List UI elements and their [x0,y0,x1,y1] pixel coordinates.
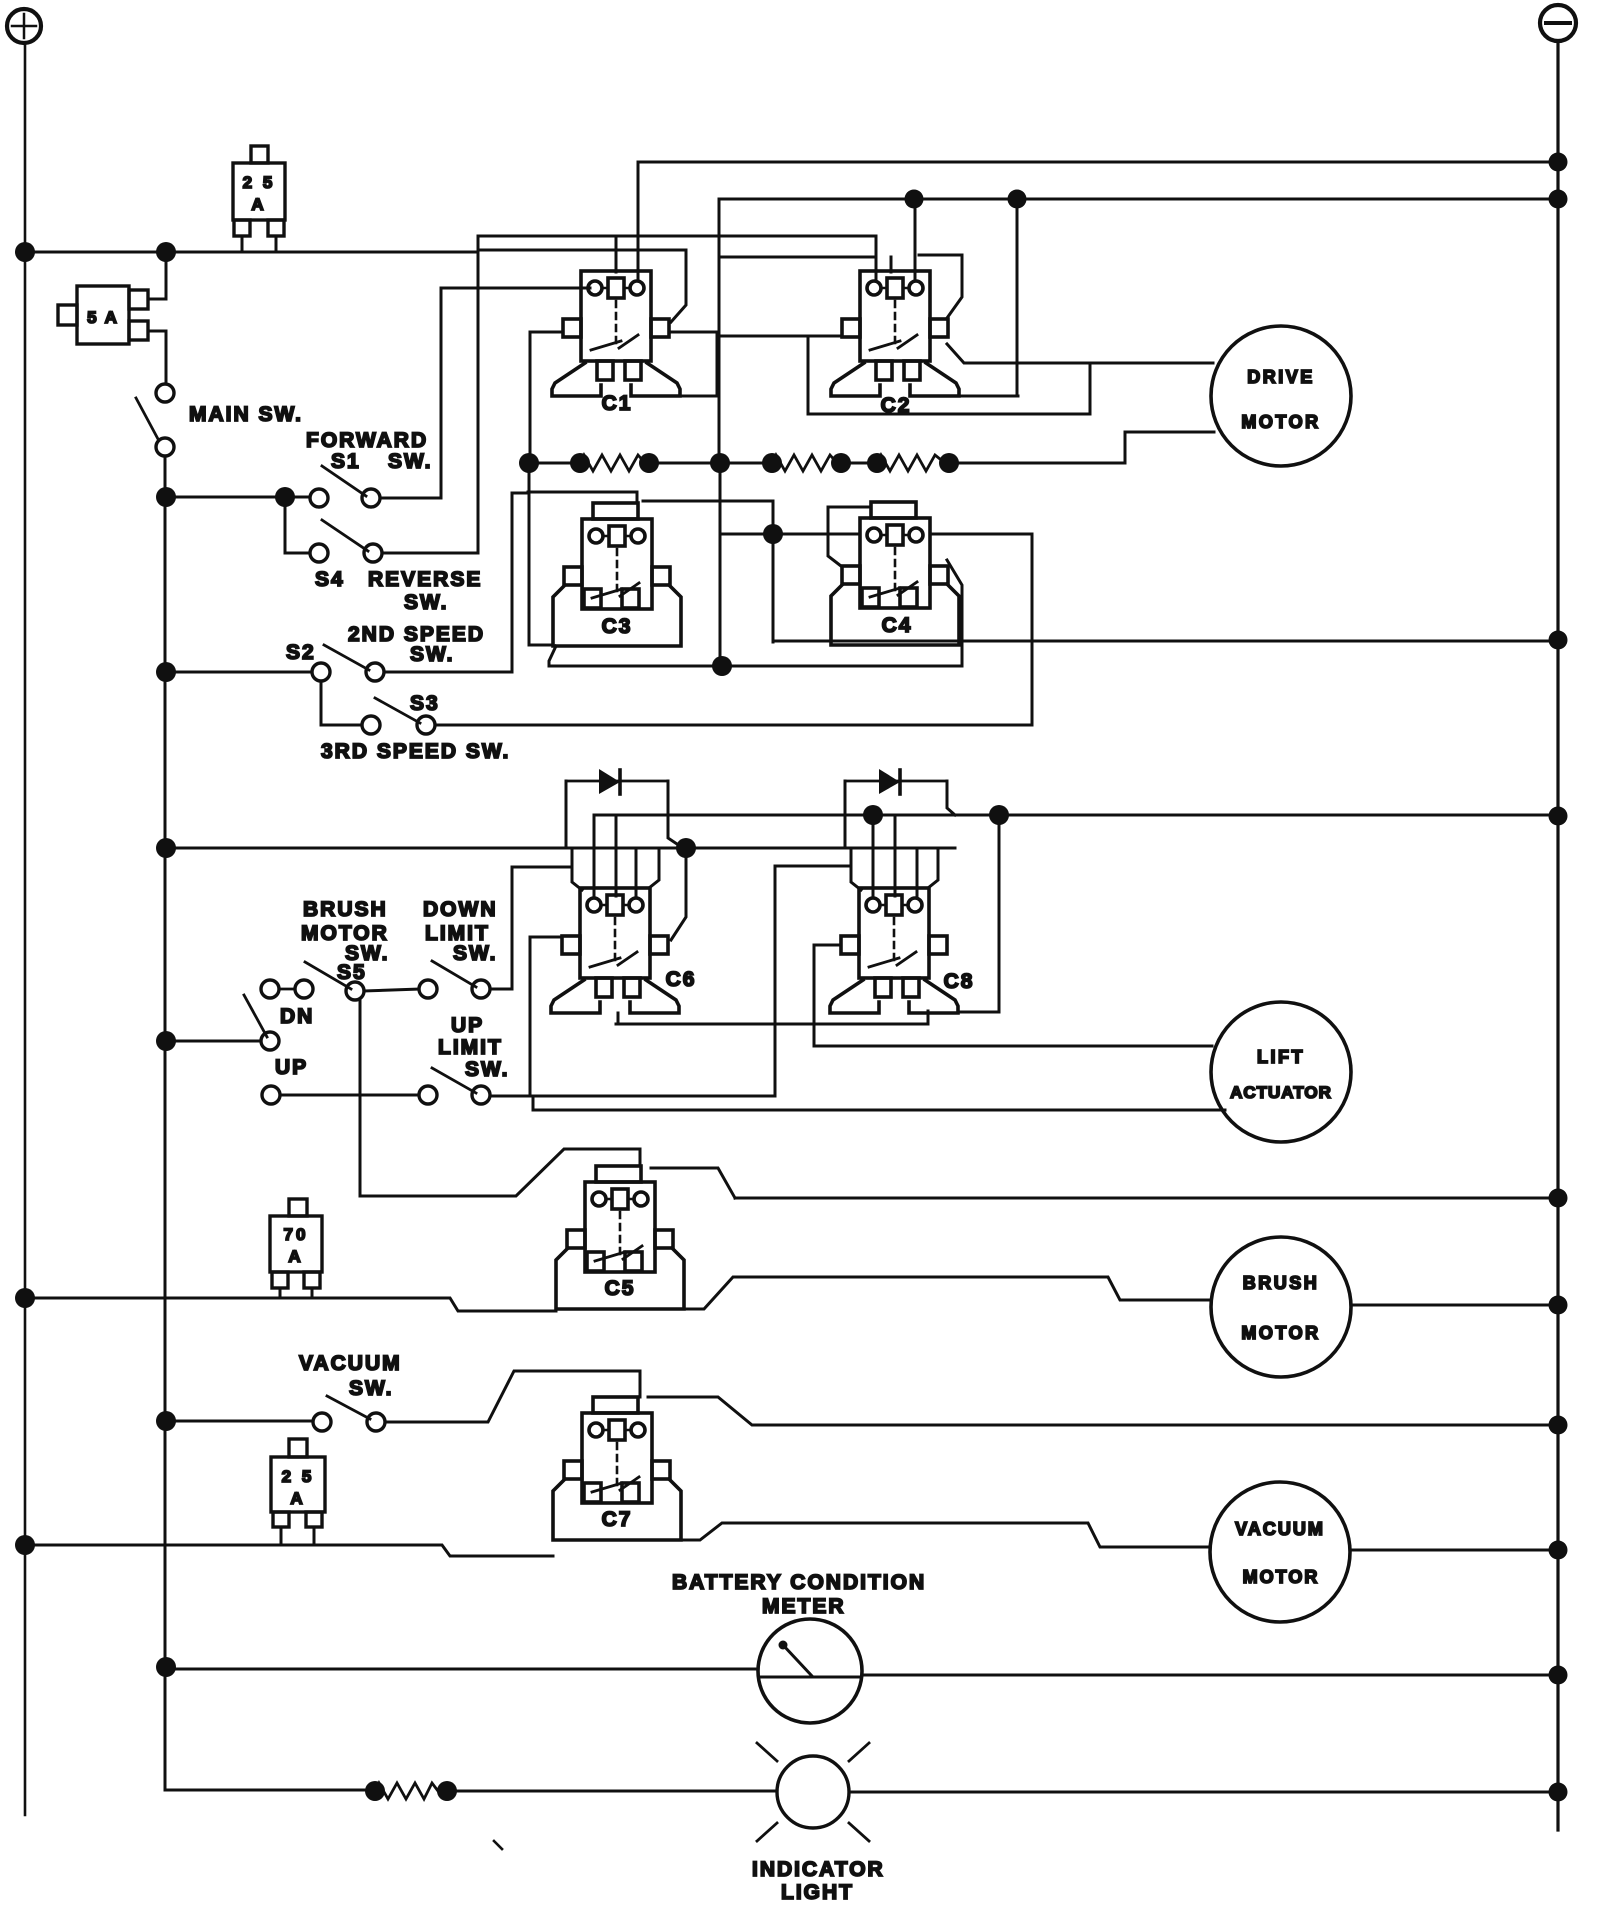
wire: C4 left hood [828,507,871,566]
wire: C8 left terminal drop [814,945,841,1024]
switch S2 2ND SPEED [312,645,384,681]
svg-text:METER: METER [762,1595,846,1618]
svg-text:INDICATOR: INDICATOR [752,1858,885,1881]
node: S1/S4 tap [275,487,295,507]
wire: lift actuator bottom feed [533,1096,1225,1110]
svg-text:REVERSE: REVERSE [368,568,482,591]
label: 25 A (bottom fuse) [282,1467,315,1508]
wire: resistor tap to C4 coil [720,463,860,666]
svg-text:DN: DN [280,1005,314,1028]
svg-text:LIMIT: LIMIT [438,1036,503,1059]
wire: bus A drop to C1 pin [637,162,640,280]
wire: brush motor line right [684,1277,1211,1309]
wire: indicator line right [849,1791,1558,1794]
wire: C4 right terminal drop [947,560,962,666]
wire: C1 center pin drop [615,236,618,272]
svg-text:BRUSH: BRUSH [303,898,388,921]
motor: BRUSH MOTOR [1211,1237,1351,1377]
node: y=848 junction [676,838,696,858]
switch S3 3RD SPEED [362,698,435,734]
wire: S1 to C1 coil [380,288,590,498]
motor: DRIVE MOTOR [1211,326,1351,466]
wire: drive motor return riser [808,336,1090,414]
wire: C6 hood left [572,848,582,890]
node: feed junction [156,242,176,262]
wire: up-limit output line [490,1095,775,1098]
svg-text:C7: C7 [602,1508,633,1531]
wire: C2 left terminal line [719,335,842,338]
wire: bus B drop to resistor bus [718,199,721,463]
svg-text:ACTUATOR: ACTUATOR [1230,1083,1332,1102]
wire: C4 top-right pin to S3 riser [931,533,1032,536]
wire: indicator line mid [447,1790,777,1793]
wire: junction to 5A fuse [148,252,166,299]
wire: positive feed y=252 [25,236,478,252]
svg-text:3RD SPEED SW.: 3RD SPEED SW. [321,740,510,763]
wire: C6 coil from junction [671,848,686,940]
wire: C2 coil feed y=257 [719,256,876,259]
meter BATTERY CONDITION METER [758,1619,862,1723]
svg-text:5 A: 5 A [87,308,119,327]
svg-text:2 5: 2 5 [243,173,276,192]
wire: common feed [166,1040,261,1043]
contactor C3 [553,503,681,646]
wire: C8 pin risers [873,815,917,897]
resistor R2 [772,455,837,471]
wire: C5 top right to bus [651,1168,735,1198]
wire: to forward switch [166,496,309,499]
svg-text:DRIVE: DRIVE [1247,367,1315,387]
svg-text:SW.: SW. [410,643,455,666]
wire: resistor bus to drive motor [1125,432,1214,463]
switch UP contact [262,1086,280,1104]
battery negative terminal [1540,5,1576,41]
svg-text:S5: S5 [337,961,367,984]
svg-text:MOTOR: MOTOR [1241,1323,1320,1343]
wire: C8 hood left [851,848,861,890]
wire: bus B tap to C2 right pin [914,199,917,281]
resistor R3 [877,455,945,471]
wire: C2 right boot extension [959,395,1018,398]
node: inner vertical junctions [156,487,176,1677]
motor: LIFT ACTUATOR [1211,1002,1351,1142]
svg-text:MOTOR: MOTOR [1243,1567,1320,1587]
wire: C1 left terminal to resistor bus [530,332,563,463]
svg-text:UP: UP [451,1014,484,1037]
svg-text:C8: C8 [944,970,975,993]
node: C4 coil tap [763,524,783,544]
wire: C3 pedestal to C4 pedestal link [549,646,962,666]
svg-text:FORWARD: FORWARD [306,429,428,452]
wire: C6 hood right [649,848,659,888]
wire: lift bottom bus to right [735,1197,1558,1200]
wire: 5A fuse to main switch [148,331,166,384]
contactor C2 [831,271,959,396]
node: resistor bus junctions [519,453,959,473]
wire: S2 tap down to S3 [321,681,362,725]
wire: C8 coil drop [775,866,851,1096]
wire: boot bus y=1024 [616,1011,928,1024]
svg-text:SW.: SW. [404,591,449,614]
svg-text:A: A [290,1489,305,1508]
wire: UP contact to up-limit [280,1094,419,1097]
switch UP-DN common [244,995,279,1050]
wire: C6 left terminal riser [530,937,562,1096]
contactor C5 [556,1166,684,1309]
wire: C8 right drop to boot [958,815,999,1012]
wire: C3 hat feed [528,492,637,503]
wire: C3 hat to C4 drop [643,501,773,642]
svg-text:DOWN: DOWN [423,898,498,921]
fuse 25A (top) [233,146,285,252]
wire: S5 to down-limit [364,989,419,991]
wire: upper negative bus B [719,198,1558,201]
switch DOWN LIMIT SW [419,961,490,998]
resistor R1 [580,455,645,471]
switch S5 BRUSH MOTOR [305,962,364,1000]
wire: C6 pin risers [594,815,636,897]
wire: vacuum motor to right bus [1350,1549,1558,1552]
wire: vacuum switch to C7 [385,1371,640,1422]
contactor C8 [830,888,958,1013]
svg-text:C1: C1 [602,392,633,415]
label: 70 A [284,1225,309,1266]
svg-text:MOTOR: MOTOR [1241,412,1320,432]
wire: vacuum motor line left [25,1545,553,1556]
wire: S3 output to right [435,534,1032,725]
wire: vacuum motor line right [681,1523,1210,1547]
svg-text:MAIN SW.: MAIN SW. [189,403,303,426]
switch VACUUM SW [313,1396,385,1431]
svg-text:BATTERY CONDITION: BATTERY CONDITION [672,1571,926,1594]
switch S1 FORWARD [310,466,380,507]
svg-text:A: A [251,195,266,214]
wire: resistor tap down C3 left [529,463,553,645]
resistor R4 [375,1783,438,1799]
switch UP LIMIT SW [419,1068,490,1104]
wire: D2 loop legs [845,781,955,848]
wire: lift bus y=815 to right bus [594,814,1558,817]
svg-text:S3: S3 [410,692,440,715]
motor: VACUUM MOTOR [1210,1482,1350,1622]
svg-text:C6: C6 [666,968,697,991]
wire: lift feed bus y=848 [166,847,955,850]
wire: S5 drop to C5 feed [360,1000,640,1196]
wire: C2 right terminal to drive motor [947,344,1213,363]
svg-text:S1: S1 [331,450,361,473]
fuse 25A (bottom) [271,1439,325,1545]
svg-text:C3: C3 [602,615,633,638]
svg-text:BRUSH: BRUSH [1243,1273,1320,1293]
svg-text:S4: S4 [315,568,345,591]
switch S4 REVERSE [310,520,382,562]
switch MAIN SW. [136,384,174,456]
wire: meter line left [166,1668,758,1671]
svg-text:LIGHT: LIGHT [781,1881,854,1904]
wire: feed line y=250 to C1 flag [478,250,686,322]
wire: C8 hood right [928,848,938,888]
wire: bus B tap to C2 boot [1016,199,1019,396]
wire: feed line y=236 to C2 [478,236,876,280]
wire: meter line right [862,1674,1558,1677]
node: link junction [712,656,732,676]
wire: C7 top right to right bus [648,1397,1558,1425]
node: bus B taps [905,190,1027,209]
contactor C6 [551,888,679,1013]
wire: resistor bus segments [529,462,1125,465]
wire: S2 output to C3 riser [384,493,528,672]
stray mark [494,1841,502,1849]
svg-text:2 5: 2 5 [282,1467,315,1486]
svg-text:C5: C5 [605,1277,636,1300]
wire: down-limit to C6 hood [490,867,572,989]
node: y=815 junctions [863,805,1009,825]
fuse 5A [58,286,148,344]
wire: D1 loop legs [566,781,680,848]
wire: C4 to right bus y=641 [773,640,1558,643]
wire: indicator line left [166,1789,375,1792]
svg-text:SW.: SW. [349,1377,394,1400]
wire: tap down to S4 [285,497,310,553]
lamp INDICATOR LIGHT [757,1743,869,1841]
svg-text:SW.: SW. [388,450,433,473]
svg-text:70: 70 [284,1225,309,1244]
svg-text:VACUUM: VACUUM [1235,1519,1325,1539]
svg-text:S2: S2 [286,641,316,664]
diode D1 [566,769,668,794]
svg-text:LIFT: LIFT [1257,1047,1305,1067]
wire: brush motor line left [25,1298,556,1311]
contactor C1 [552,271,680,396]
wire: C1 right boot extension [680,395,717,398]
wire: lift actuator top feed [814,1024,1212,1046]
wire: upper negative bus A [638,161,1558,164]
fuse 70A [270,1199,322,1298]
svg-text:UP: UP [275,1056,308,1079]
wire: C2 center pin drop [890,257,893,272]
wire: left positive bus [24,43,27,1815]
diode D2 [845,769,947,794]
node: left bus junctions [15,242,35,1555]
svg-text:SW.: SW. [453,942,498,965]
battery positive terminal [7,9,41,43]
node: R4 terminals [365,1781,457,1801]
contactor C4 [831,502,959,645]
node: right bus junctions [1549,153,1568,1802]
contactor C7 [553,1397,681,1540]
svg-text:VACUUM: VACUUM [299,1352,402,1375]
svg-text:A: A [288,1247,303,1266]
wire: vacuum switch feed [166,1420,312,1423]
wire: C1 right terminal drop [669,332,717,396]
svg-text:C4: C4 [882,614,913,637]
wire: S2 feed [166,671,312,674]
wire: left inner vertical feed [164,456,167,1790]
wire: brush motor to right bus [1351,1304,1558,1307]
wire: C2 flag [919,255,962,318]
wire: right negative bus [1556,41,1559,1830]
label: 25 A (top fuse) [243,173,276,214]
svg-text:SW.: SW. [465,1058,510,1081]
wire: S4 riser to top feed [382,236,478,553]
switch DN contacts [261,980,313,998]
